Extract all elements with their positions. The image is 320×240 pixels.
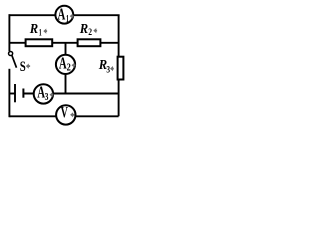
battery long plate (14, 84, 16, 102)
mark after A3 (50, 92, 54, 97)
wire: left edge lower segment (below switch) (8, 69, 10, 117)
resistor R3 box (118, 57, 124, 80)
mark after R2 (93, 28, 97, 33)
wire: battery row left stub (9, 93, 15, 95)
wire: resistor row R1-R2 (9, 42, 118, 44)
wire: left edge upper segment (above switch) (8, 14, 10, 51)
mark after R3 (110, 66, 114, 71)
svg-text:1: 1 (66, 13, 69, 25)
svg-text:2: 2 (67, 63, 71, 74)
wire: A2 vertical branch (65, 43, 67, 94)
svg-text:S: S (20, 59, 26, 75)
mark after S (26, 64, 30, 69)
wire: bottom wire (9, 115, 118, 117)
switch S blade (12, 55, 17, 67)
svg-text:A: A (59, 53, 67, 72)
resistor R2 box (78, 39, 101, 46)
svg-text:2: 2 (88, 28, 92, 38)
voltmeter V circle (56, 105, 75, 124)
mark after R1 (43, 29, 47, 34)
svg-text:A: A (58, 5, 66, 24)
mark after A1 (70, 14, 74, 19)
wire: battery row to right edge (23, 93, 118, 95)
switch S pivot circle (9, 51, 13, 55)
resistor R1 box (26, 39, 53, 46)
svg-text:R: R (79, 22, 88, 37)
svg-text:3: 3 (45, 92, 49, 103)
ammeter A1 circle (55, 6, 73, 24)
ammeter A3 circle (34, 84, 53, 103)
battery short plate (22, 89, 24, 98)
svg-text:V: V (61, 104, 69, 121)
svg-text:R: R (29, 22, 38, 37)
svg-text:1: 1 (39, 28, 42, 38)
mark after A2 (72, 63, 76, 68)
mark after V (70, 112, 75, 117)
svg-text:3: 3 (106, 65, 110, 75)
ammeter A2 circle (56, 55, 75, 74)
wire: top wire (9, 14, 120, 16)
wire: right edge (118, 15, 120, 116)
